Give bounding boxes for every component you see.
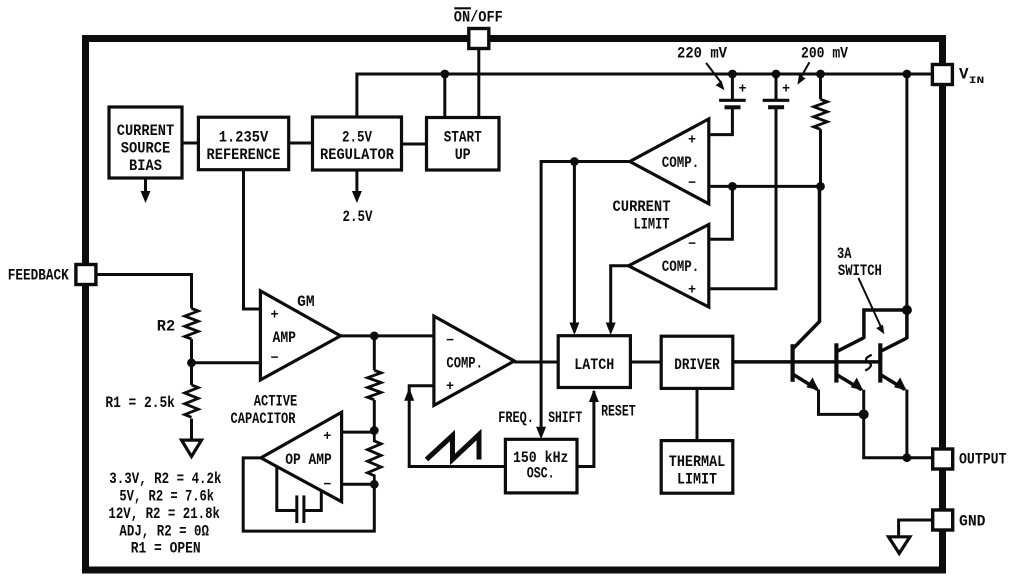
label 2.5V output [343, 208, 374, 226]
wire regulator 2.5V output arrow [352, 170, 362, 203]
label 1.235V reference [207, 129, 281, 164]
wire Q1 collector to sense node [818, 186, 822, 322]
svg-text:−: − [688, 238, 696, 253]
wire reference to regulator [289, 142, 313, 145]
label battery2 plus [782, 83, 790, 98]
svg-text:FREQ.: FREQ. [498, 409, 534, 427]
wire node to GM amp - input [192, 361, 261, 364]
svg-text:200 mV: 200 mV [801, 44, 849, 62]
svg-text:LIMIT: LIMIT [677, 470, 717, 488]
svg-text:2.5V: 2.5V [342, 129, 373, 147]
node sense resistor rail junction [816, 70, 825, 79]
wire Q2 collector to Vin node [864, 310, 907, 339]
svg-text:−: − [323, 478, 331, 493]
label OUTPUT [959, 451, 1007, 469]
label FEEDBACK [8, 266, 70, 284]
node op-amp + input junction [370, 426, 379, 435]
svg-text:+: + [323, 430, 331, 445]
op-amp GM AMP [260, 291, 340, 380]
svg-text:CURRENT: CURRENT [117, 122, 175, 140]
label reset [601, 402, 636, 420]
latch LATCH [558, 336, 630, 388]
svg-text:V: V [959, 66, 969, 84]
wire op-amp output feedback loop [243, 458, 374, 531]
label ON/OFF [454, 8, 503, 26]
wire oscillator to latch reset [577, 390, 599, 467]
wire R1 to ground [190, 419, 193, 441]
oscillator 150 kHz OSC [505, 439, 577, 493]
svg-text:UP: UP [455, 146, 471, 164]
pin ON/OFF [469, 29, 489, 49]
svg-text:REGULATOR: REGULATOR [320, 146, 395, 164]
node switch collector junction [902, 305, 912, 315]
base rail crossover squiggle [865, 355, 872, 371]
wire bias to reference [182, 142, 198, 145]
annotation arrow 3A switch [858, 278, 884, 334]
svg-text:R1 = OPEN: R1 = OPEN [131, 540, 201, 558]
svg-text:220 mV: 220 mV [677, 44, 728, 62]
wire oscillator to comparator + input [404, 386, 505, 467]
svg-text:+: + [446, 380, 454, 395]
wire comparator output to latch [514, 361, 558, 364]
wire FEEDBACK pin to R2 [96, 275, 192, 309]
svg-text:R2: R2 [157, 317, 176, 335]
block 2.5V regulator [313, 117, 402, 170]
svg-text:ACTIVE: ACTIVE [254, 393, 298, 411]
wire GND pin to ground [899, 520, 933, 537]
wire comparator2 + input to 200mV source [709, 108, 776, 289]
wire node to R1 [190, 363, 193, 385]
label feedback table [108, 470, 221, 558]
svg-text:BIAS: BIAS [129, 157, 162, 175]
thermal limit block [661, 441, 733, 494]
block current source bias [109, 107, 182, 178]
svg-text:+: + [688, 283, 696, 298]
svg-text:+: + [782, 83, 790, 98]
wire Vin drop to switch collectors [905, 74, 908, 310]
svg-text:COMP.: COMP. [662, 154, 700, 172]
resistor current sense [814, 74, 828, 186]
pin FEEDBACK [76, 265, 96, 285]
svg-text:+: + [270, 308, 278, 323]
svg-text:2.5V: 2.5V [343, 208, 374, 226]
label start up [444, 129, 482, 164]
svg-text:START: START [444, 129, 482, 147]
node 220mV rail junction [728, 70, 737, 79]
node output junction [903, 453, 912, 462]
wire Vin rail from regulator top to VIN pin [357, 74, 933, 118]
svg-text:CURRENT: CURRENT [613, 198, 671, 216]
pin OUTPUT [933, 449, 953, 469]
svg-text:DRIVER: DRIVER [674, 356, 720, 374]
wire comparator2 - input [709, 186, 733, 239]
op-amp OP AMP [261, 412, 342, 502]
label GM amp [270, 293, 314, 367]
wire Q1 emitter down [819, 390, 864, 415]
label R2 [157, 317, 176, 335]
node 200mV rail junction [772, 70, 781, 79]
transistor Q2 [836, 338, 864, 391]
svg-text:LATCH: LATCH [574, 356, 614, 374]
svg-text:COMP.: COMP. [446, 354, 483, 372]
svg-text:3.3V, R2 = 4.2k: 3.3V, R2 = 4.2k [109, 470, 221, 488]
svg-text:12V, R2 = 21.8k: 12V, R2 = 21.8k [108, 505, 220, 523]
label GND [959, 513, 986, 531]
resistor compensation upper [367, 370, 381, 399]
wire comparator1 output to latch and freq shift [536, 162, 630, 440]
node Vin rail switch junction [903, 70, 912, 79]
label current source bias [117, 122, 175, 175]
comparator current limit upper [630, 119, 709, 204]
resistor R2 [185, 308, 199, 339]
node sense resistor bottom junction [816, 182, 825, 191]
wire comparator1 + input to 220mV source [709, 108, 733, 135]
svg-text:R1 = 2.5k: R1 = 2.5k [105, 394, 174, 412]
label active capacitor [231, 393, 298, 429]
svg-text:AMP: AMP [273, 329, 297, 347]
svg-text:−: − [270, 352, 278, 367]
capacitor active capacitor [277, 467, 322, 523]
wire driver to thermal limit [696, 388, 699, 440]
label oscillator [513, 449, 569, 483]
svg-text:−: − [446, 334, 454, 349]
svg-text:ADJ, R2 = 0Ω: ADJ, R2 = 0Ω [119, 523, 209, 541]
node GM output compensation junction [370, 332, 379, 341]
label VIN [959, 66, 984, 88]
label thermal limit [669, 453, 726, 489]
label comparator1 [662, 134, 700, 192]
wire op-amp + input [342, 431, 375, 434]
svg-text:GND: GND [959, 513, 986, 531]
label comparator2 [662, 238, 700, 299]
svg-text:SWITCH: SWITCH [838, 262, 882, 280]
ground GND symbol [889, 537, 910, 554]
svg-text:RESET: RESET [601, 402, 636, 420]
op-amp PWM comparator [434, 316, 514, 405]
wire bias ground arrow [141, 178, 151, 203]
wire Q3 emitter to output [905, 390, 908, 458]
comparator current limit lower [629, 225, 709, 308]
svg-text:OUTPUT: OUTPUT [959, 451, 1007, 469]
wire emitters to OUTPUT pin [864, 414, 933, 457]
node comparator inputs junction [728, 182, 737, 191]
wire reference to GM amp + input [244, 170, 261, 309]
node comparator1 output junction [570, 157, 579, 166]
label 200 mV [801, 44, 849, 62]
transistor Q3 [880, 338, 907, 390]
driver DRIVER [661, 336, 733, 388]
svg-text:3A: 3A [837, 245, 852, 263]
label PWM comparator [446, 334, 483, 395]
svg-text:OSC.: OSC. [527, 464, 555, 482]
svg-text:CAPACITOR: CAPACITOR [231, 410, 297, 428]
wire latch to driver [630, 361, 661, 364]
svg-text:OP AMP: OP AMP [285, 451, 332, 469]
svg-text:LIMIT: LIMIT [634, 216, 670, 234]
wire junction to latch set input [569, 162, 579, 336]
svg-text:+: + [688, 134, 696, 149]
label op amp [285, 430, 332, 493]
svg-text:+: + [738, 83, 746, 98]
annotation arrow 220 mV [706, 63, 724, 90]
label 220 mV [677, 44, 728, 62]
resistor compensation lower [367, 431, 381, 485]
label freq shift [498, 409, 582, 427]
wire op-amp - input [342, 483, 375, 486]
voltage source 220 mV [719, 74, 746, 107]
wire driver output base rail [733, 360, 881, 364]
svg-text:1.235V: 1.235V [219, 129, 269, 147]
node op-amp - input junction [370, 480, 379, 489]
svg-text:REFERENCE: REFERENCE [207, 146, 281, 164]
svg-text:FEEDBACK: FEEDBACK [8, 266, 70, 284]
pin GND [933, 510, 953, 530]
voltage source 200 mV [763, 74, 790, 107]
svg-text:5V, R2 = 7.6k: 5V, R2 = 7.6k [119, 488, 214, 506]
label R1 value [105, 394, 174, 412]
block start up [427, 118, 500, 171]
label current limit [613, 198, 671, 234]
label 3A switch [837, 245, 882, 280]
block 1.235V reference [198, 117, 288, 170]
wire Q2 emitter to node [862, 390, 865, 415]
svg-text:−: − [688, 177, 696, 192]
svg-text:THERMAL: THERMAL [669, 453, 726, 471]
svg-text:COMP.: COMP. [662, 258, 700, 276]
label driver [674, 356, 720, 374]
pin VIN [932, 65, 952, 85]
wire resistor to op-amp + node [373, 400, 376, 431]
wire ON/OFF pin drop to start up [477, 49, 480, 118]
wire regulator to start up [402, 143, 427, 146]
wire R2 to node [190, 339, 193, 363]
wire GM amp output to comparator - input [341, 334, 434, 337]
sawtooth waveform symbol [427, 435, 480, 460]
svg-text:SHIFT: SHIFT [548, 409, 582, 427]
svg-text:GM: GM [297, 293, 315, 311]
annotation arrow 200 mV [797, 62, 809, 85]
wire node to compensation resistor [373, 336, 376, 370]
node emitter junction [859, 409, 869, 419]
label 2.5V regulator [320, 129, 395, 164]
node R1 R2 junction [187, 358, 196, 367]
wire rail to start up [443, 74, 446, 118]
svg-text:IN: IN [969, 75, 985, 87]
resistor R1 [185, 385, 199, 417]
svg-text:ON/OFF: ON/OFF [454, 8, 503, 26]
transistor Q1 [793, 322, 820, 391]
node rail-startup junction [440, 70, 449, 79]
svg-text:SOURCE: SOURCE [121, 140, 171, 158]
ground below R1 [182, 440, 202, 456]
label battery1 plus [738, 83, 746, 98]
wire Q3 collector [905, 310, 909, 339]
wire comparator1 - input to sense resistor [709, 185, 821, 188]
label latch [574, 356, 614, 374]
wire comparator2 output to latch [606, 266, 629, 335]
